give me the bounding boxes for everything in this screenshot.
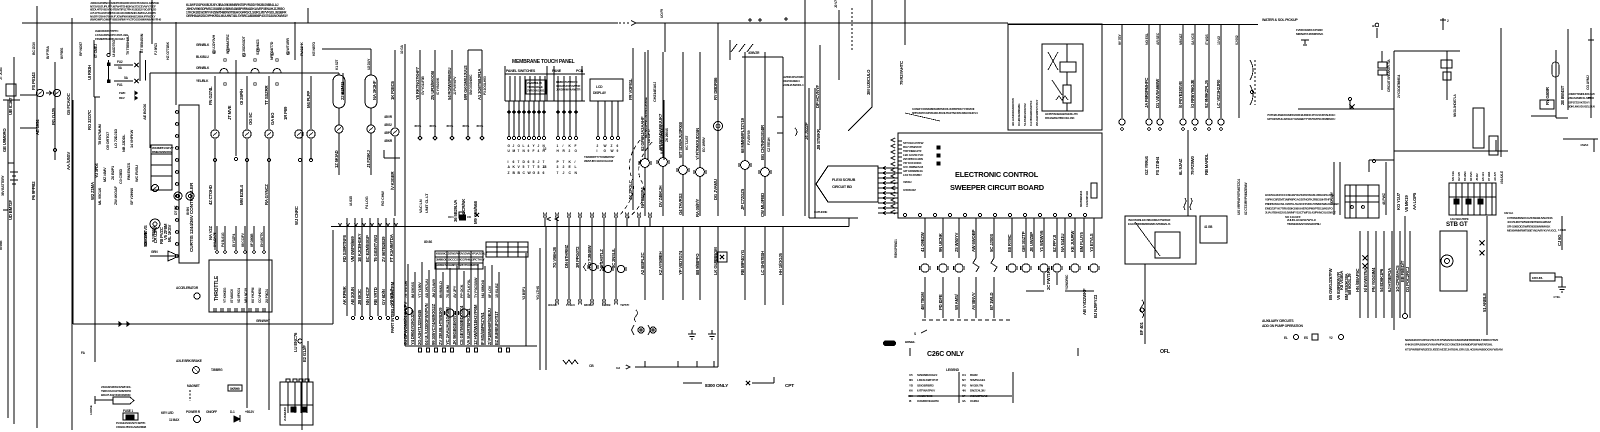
svg-text:S3 8VMZ3: S3 8VMZ3 [256, 39, 260, 55]
svg-text:ORN/BLK: ORN/BLK [196, 66, 210, 70]
svg-text:99 305YCY4AE9OG2Z: 99 305YCY4AE9OG2Z [431, 303, 436, 345]
svg-text:AK RPMK: AK RPMK [342, 285, 347, 305]
svg-text:IUTFWA7PKV: IUTFWA7PKV [917, 389, 936, 393]
svg-text:22 BZM11: 22 BZM11 [340, 81, 345, 100]
svg-text:3M8BOI215CCCSS/CGRH9A3PCTHUY: 3M8BOI215CCCSS/CGRH9A3PCTHUY [436, 257, 485, 261]
svg-text:Z/ P18NIH8F/S0BJU: Z/ P18NIH8F/S0BJU [487, 308, 492, 345]
svg-text:IMUMA: IMUMA [584, 303, 594, 307]
svg-text:EI Y3ZF4: EI Y3ZF4 [232, 234, 236, 247]
svg-text:O/ H8F2E4I88H8G: O/ H8F2E4I88H8G [1017, 103, 1021, 126]
svg-text:FJ 9RZI: FJ 9RZI [154, 43, 158, 55]
svg-text:PANEL SWITCHES: PANEL SWITCHES [506, 69, 536, 73]
svg-text:KT1PWRBFNRJEE1UEEE/AEZEJH78S4L: KT1PWRBFNRJEE1UEEE/AEZEJH78S4LGRU12L4G5W… [1405, 347, 1503, 351]
svg-text:BP FLKY0L: BP FLKY0L [467, 278, 471, 298]
svg-text:88 CCIFV: 88 CCIFV [241, 232, 245, 247]
svg-text:UNIT CL LT: UNIT CL LT [424, 193, 429, 213]
svg-text:OI 25P/H: OI 25P/H [239, 89, 244, 105]
svg-text:UB IC367: UB IC367 [8, 97, 13, 115]
svg-text:HN /0BAF5C: HN /0BAF5C [1355, 269, 1360, 292]
svg-text:ADD ON PUMP OPERATION: ADD ON PUMP OPERATION [1262, 324, 1303, 328]
svg-text:4 MAX: 4 MAX [1580, 143, 1588, 147]
svg-text:45/YA: 45/YA [446, 124, 454, 128]
svg-text:RY G80IR: RY G80IR [1545, 86, 1550, 105]
svg-text:9Z 9N9KZPLJ5: 9Z 9N9KZPLJ5 [1204, 80, 1209, 108]
svg-text:ES 1Z1: ES 1Z1 [1481, 172, 1485, 181]
svg-text:KE N87O: KE N87O [312, 42, 316, 56]
svg-text:8F D80IB: 8F D80IB [250, 233, 254, 247]
svg-text:JP C7ZGZ5: JP C7ZGZ5 [740, 188, 745, 210]
svg-text:NA 5141U: NA 5141U [1060, 234, 1065, 252]
svg-text:ML 95CU0: ML 95CU0 [97, 188, 102, 205]
svg-text:EFKURL: EFKURL [1532, 276, 1543, 280]
svg-text:KZ AY949EH: KZ AY949EH [658, 251, 663, 275]
svg-text:04 UL/UJ30OFWVPVN: 04 UL/UJ30OFWVPVN [424, 303, 429, 345]
svg-text:UI A6D7SG: UI A6D7SG [112, 40, 116, 57]
svg-text:1K P2EC6: 1K P2EC6 [390, 80, 395, 100]
svg-text:U2 DUY: U2 DUY [367, 58, 371, 70]
svg-text:CA N5UHI3FMHYKZ: CA N5UHI3FMHYKZ [1029, 100, 1033, 126]
svg-text:REV: REV [119, 96, 125, 100]
svg-text:18: 18 [543, 165, 547, 169]
svg-text:4Z CTOHD: 4Z CTOHD [208, 185, 213, 205]
svg-text:CC VH05U: CC VH05U [258, 287, 262, 303]
svg-text:HO LMHORGM9R7O5: HO LMHORGM9R7O5 [1011, 98, 1015, 126]
svg-text:4G6VZR: 4G6VZR [748, 51, 760, 55]
svg-text:YU 3FD6: YU 3FD6 [94, 162, 99, 178]
svg-text:MR GKGM0JJUU3: MR GKGM0JJUU3 [463, 65, 468, 100]
svg-text:7G V56HJ8: 7G V56HJ8 [552, 247, 557, 268]
svg-text:6T CMEJ: 6T CMEJ [94, 44, 98, 58]
svg-text:GY 6D/N: GY 6D/N [381, 289, 386, 305]
svg-text:6PPA84IYUIJPWH3KJ51NHTAZ7NCDSU: 6PPA84IYUIJPWH3KJ51NHTAZ7NCDSUMHU4HKV4 [912, 111, 978, 115]
svg-text:R8 PVZC: R8 PVZC [159, 227, 164, 244]
svg-text:x-x: x-x [616, 366, 620, 370]
svg-text:OFL: OFL [1160, 349, 1171, 355]
svg-text:41 GB: 41 GB [1204, 225, 1213, 229]
svg-text:AXLE BRK BRAKE: AXLE BRK BRAKE [176, 359, 202, 363]
svg-text:S: S [914, 332, 916, 336]
svg-text:GV YG11F3B: GV YG11F3B [421, 76, 425, 95]
svg-text:SWEEPER CIRCUIT BOARD: SWEEPER CIRCUIT BOARD [950, 183, 1045, 192]
svg-text:2YRGOU19O15N: 2YRGOU19O15N [527, 89, 548, 93]
svg-text:RP NO57: RP NO57 [79, 42, 83, 56]
svg-text:80 86: 80 86 [424, 240, 432, 244]
svg-text:JT JC83: JT JC83 [0, 67, 3, 80]
svg-text:F: F [533, 149, 535, 153]
svg-text:9Y 7EY: 9Y 7EY [1118, 34, 1122, 45]
svg-text:1FDWU2Z: 1FDWU2Z [903, 188, 916, 192]
svg-text:TY P3CSBW: TY P3CSBW [474, 277, 478, 298]
svg-text:C0 C5ED: C0 C5ED [118, 169, 123, 184]
svg-text:CURTIS 1244/36V CONTROLLER: CURTIS 1244/36V CONTROLLER [189, 182, 195, 252]
svg-text:FS P0143: FS P0143 [31, 72, 36, 90]
svg-text:BJ NJ9FYZ3: BJ NJ9FYZ3 [1093, 294, 1098, 318]
svg-text:STB GT: STB GT [1446, 221, 1468, 228]
svg-text:79 PZ9W0: 79 PZ9W0 [1190, 155, 1195, 175]
svg-text:45/KR: 45/KR [384, 139, 393, 143]
svg-text:R/S4ABWJ786CCEL16K: R/S4ABWJ786CCEL16K [1045, 116, 1075, 120]
svg-text:AV JPY: AV JPY [453, 285, 457, 298]
svg-text:GE U9M0RO: GE U9M0RO [2, 128, 7, 152]
svg-text:EM FLUY5: EM FLUY5 [1079, 232, 1084, 252]
svg-text:45/P1: 45/P1 [384, 131, 392, 135]
svg-text:EH MI7TK: EH MI7TK [260, 232, 264, 247]
svg-text:4 YEL: 4 YEL [1553, 295, 1561, 299]
svg-text:J1 FZ8KJ: J1 FZ8KJ [366, 150, 371, 168]
svg-text:W2 Z1MA: W2 Z1MA [90, 182, 95, 200]
svg-text:KD TJB48W: KD TJB48W [587, 244, 592, 268]
svg-text:YP V0DTG74: YP V0DTG74 [678, 250, 683, 275]
svg-text:51 ANBL8: 51 ANBL8 [1482, 293, 1487, 312]
svg-text:LU ENC76: LU ENC76 [293, 332, 298, 352]
svg-text:36 5B29LVA: 36 5B29LVA [453, 200, 458, 222]
svg-text:P4 5L61G: P4 5L61G [221, 232, 225, 247]
svg-text:JJ PV9YKPV: JJ PV9YKPV [453, 76, 457, 95]
svg-text:IF MS/I45PKZYN1: IF MS/I45PKZYN1 [480, 312, 485, 345]
svg-text:D-1: D-1 [230, 410, 235, 414]
svg-text:0F LOV: 0F LOV [488, 285, 492, 298]
svg-text:T8 EN7MUM: T8 EN7MUM [97, 124, 102, 145]
svg-text:2E 8W4ST: 2E 8W4ST [1560, 85, 1565, 105]
svg-text:PART INTERLOCK SYSTEM: PART INTERLOCK SYSTEM [390, 281, 395, 333]
svg-text:82 KVC: 82 KVC [1469, 171, 1473, 181]
svg-text:V8 MK19: V8 MK19 [1404, 195, 1409, 212]
svg-text:RZ 1V0: RZ 1V0 [1457, 171, 1461, 181]
svg-text:9OLMF: 9OLMF [548, 303, 558, 307]
svg-text:41 O9EZW: 41 O9EZW [920, 231, 925, 252]
svg-text:U/S VRPR4F97FMI3TZC4: U/S VRPR4F97FMI3TZC4 [1237, 179, 1241, 215]
svg-text:Y/JWOR6C: Y/JWOR6C [1065, 274, 1069, 290]
svg-text:T.B/BRG: T.B/BRG [211, 368, 223, 372]
svg-text:54 ROIW5P8MSU: 54 ROIW5P8MSU [447, 68, 452, 100]
svg-text:FU2: FU2 [117, 60, 123, 64]
svg-text:P6 9PPB2: P6 9PPB2 [31, 181, 36, 200]
svg-text:W1WCPMAC: W1WCPMAC [970, 394, 988, 398]
svg-text:6L 9JAIZ: 6L 9JAIZ [1178, 158, 1183, 175]
svg-text:LC V0Z3H2JR0: LC V0Z3H2JR0 [1216, 79, 1221, 108]
svg-text:EF 401: EF 401 [1139, 322, 1144, 335]
svg-text:AE BOG6: AE BOG6 [142, 103, 147, 120]
svg-text:45/YA: 45/YA [429, 124, 437, 128]
svg-text:HZ O771BK: HZ O771BK [166, 41, 170, 60]
svg-text:KB029C1DZW1PW3V1DV9JYP3AZG9LE: KB029C1DZW1PW3V1DV9JYP3AZG9LE [436, 252, 487, 256]
svg-text:NA 3K3HF: NA 3K3HF [372, 80, 377, 100]
svg-text:K8 VG80A: K8 VG80A [1339, 271, 1344, 290]
svg-text:W: W [611, 149, 614, 153]
svg-text:CG AYMJ: CG AYMJ [1586, 75, 1590, 90]
svg-text:1Z 5KIAD: 1Z 5KIAD [334, 150, 339, 168]
svg-text:E8 RY9IC: E8 RY9IC [1007, 235, 1012, 252]
svg-text:/V K3GER: /V K3GER [390, 170, 395, 190]
svg-text:36V BATTERY: 36V BATTERY [1, 175, 5, 196]
svg-text:3M UJ0CULO: 3M UJ0CULO [866, 69, 871, 95]
svg-text:R/BKSPBND1: R/BKSPBND1 [894, 239, 898, 258]
svg-text:E2 G1J/F: E2 G1J/F [302, 345, 307, 362]
svg-text:B/ P7RA: B/ P7RA [46, 46, 50, 59]
svg-text:Z: Z [611, 144, 613, 148]
svg-text:ML 1KSV: ML 1KSV [167, 225, 172, 242]
svg-text:5NVBGAE1: 5NVBGAE1 [970, 378, 986, 382]
svg-text:A1 3O8T5BJR1A: A1 3O8T5BJR1A [477, 69, 482, 100]
svg-text:1R P89: 1R P89 [283, 106, 288, 120]
svg-text:13 V/2: 13 V/2 [1217, 36, 1221, 45]
svg-text:O3GBDVEHH7I9: O3GBDVEHH7I9 [917, 399, 939, 403]
svg-text:A2 6ISPLZC: A2 6ISPLZC [640, 253, 645, 275]
svg-text:AUXILIARY CIRCUITS: AUXILIARY CIRCUITS [1262, 319, 1294, 323]
svg-text:2V CSO4TMN514: 2V CSO4TMN514 [1397, 74, 1401, 98]
svg-text:LD ZJFT7: LD ZJFT7 [647, 129, 651, 143]
svg-text:54 ED6K1P6: 54 ED6K1P6 [1379, 268, 1384, 292]
svg-text:NB J2DDL: NB J2DDL [121, 134, 126, 152]
svg-text:0JTO/FM5JL3W1HCYHN99ET7YB7FM7S: 0JTO/FM5JL3W1HCYHN99ET7YB7FM7SU/FMI6SOU [1267, 117, 1336, 121]
svg-text:DV Z46KJH: DV Z46KJH [658, 186, 663, 207]
svg-text:Y1 WDWV6: Y1 WDWV6 [1039, 230, 1044, 252]
svg-text:EZ 8UMEUFOTI1T: EZ 8UMEUFOTI1T [494, 311, 499, 345]
svg-text:JB STWKR: JB STWKR [816, 128, 821, 150]
svg-text:PN Y0GGIM4: PN Y0GGIM4 [1371, 267, 1376, 292]
svg-text:6S HN4: 6S HN4 [1463, 171, 1467, 181]
svg-text:Y/ F/70MOUD15N: Y/ F/70MOUD15N [695, 128, 700, 160]
svg-text:YEL/BLK: YEL/BLK [196, 79, 209, 83]
svg-text:DN 6THRMZ: DN 6THRMZ [564, 244, 569, 268]
svg-text:/T W2S: /T W2S [1205, 34, 1209, 45]
svg-text:ME9B4MMRMTBBEYN2A/RYKVYUGCL: ME9B4MMRMTBBEYN2A/RYKVYUGCL [1507, 229, 1557, 233]
svg-text:6IUW9BMO4: 6IUW9BMO4 [1079, 190, 1083, 207]
svg-text:DNZC4L3IU: DNZC4L3IU [970, 389, 986, 393]
svg-text:Z6 B2P1: Z6 B2P1 [110, 165, 115, 180]
svg-text:FU1: FU1 [117, 83, 123, 87]
svg-text:CJ 6G: CJ 6G [1557, 234, 1562, 246]
svg-text:E92D9: E92D9 [602, 303, 611, 307]
svg-text:7S TNTDB: 7S TNTDB [404, 281, 408, 298]
svg-text:A50: A50 [885, 342, 891, 346]
svg-text:07 MUIC6: 07 MUIC6 [230, 289, 234, 303]
svg-text:YT Y190V: YT Y190V [418, 282, 422, 298]
svg-text:CIRCUIT BREAKER 70A: CIRCUIT BREAKER 70A [1387, 59, 1391, 92]
svg-text:5C JJS0S: 5C JJS0S [989, 234, 994, 252]
svg-text:AB VVD2WKF: AB VVD2WKF [1082, 288, 1087, 315]
svg-text:T6 GIGNTVW3: T6 GIGNTVW3 [373, 234, 378, 262]
svg-text:PG OJJ9: PG OJJ9 [51, 108, 56, 125]
svg-text:BC IZG0: BC IZG0 [32, 42, 36, 55]
svg-text:/O RR6Y96OJE: /O RR6Y96OJE [1190, 79, 1195, 108]
svg-text:SM GGSN05C: SM GGSN05C [469, 74, 473, 95]
svg-text:/0 P0YE19SVE: /0 P0YE19SVE [1178, 81, 1183, 108]
svg-text:NU 68NO4I: NU 68NO4I [481, 280, 485, 298]
svg-text:3C 2NSLIL: 3C 2NSLIL [611, 248, 616, 268]
svg-text:#34 AXLE: #34 AXLE [1500, 171, 1504, 184]
svg-text:AB 3OUN: AB 3OUN [350, 287, 355, 305]
svg-text:NO ESL: NO ESL [1145, 32, 1149, 45]
svg-text:K6: K6 [909, 389, 913, 393]
svg-text:62 GF6NJA3AAHF: 62 GF6NJA3AAHF [640, 116, 645, 151]
svg-text:51 /KM6FIZD1PDZ: 51 /KM6FIZD1PDZ [1023, 103, 1027, 126]
svg-text:79 R3YAHTC: 79 R3YAHTC [899, 61, 904, 85]
svg-text:AR SEC: AR SEC [1156, 32, 1160, 45]
svg-text:KO Y1U7: KO Y1U7 [1396, 192, 1401, 210]
svg-text:BLK/BLU: BLK/BLU [196, 55, 209, 59]
svg-text:TINWE2E8AP31NSIJOP8H: TINWE2E8AP31NSIJOP8H [1287, 222, 1320, 226]
svg-text:RY DBDR86: RY DBDR86 [713, 77, 718, 100]
svg-text:F4 LOG: F4 LOG [365, 196, 369, 209]
svg-text:O/J/8H: O/J/8H [970, 399, 980, 403]
svg-text:SF Y2HN0: SF Y2HN0 [129, 188, 134, 205]
svg-text:M9 YG5/N68: M9 YG5/N68 [473, 200, 478, 224]
svg-text:P8DPEWGCNLUWF5LAV22CFPJ8KJYINM: P8DPEWGCNLUWF5LAV22CFPJ8KJYINMOWEA6C79W [1265, 202, 1339, 206]
svg-text:GZ Y99U4: GZ Y99U4 [1144, 156, 1149, 175]
svg-text:WA RHPZ89Y7CYGY: WA RHPZ89Y7CYGY [1035, 100, 1039, 126]
svg-text:LC SH578SH: LC SH578SH [760, 251, 765, 275]
svg-text:Y8 RKTNO7KHF7: Y8 RKTNO7KHF7 [415, 66, 420, 100]
svg-text:FJ VBYS9: FJ VBYS9 [747, 130, 751, 145]
svg-text:YWT7F: YWT7F [620, 303, 630, 307]
svg-text:ZV ZEU8LHTW82K9: ZV ZEU8LHTW82K9 [438, 307, 443, 345]
svg-text:CB: CB [589, 364, 594, 368]
svg-text:VD 0FKO1: VD 0FKO1 [237, 288, 241, 303]
svg-text:YT K9KEG: YT K9KEG [223, 287, 227, 303]
svg-text:45/G2: 45/G2 [384, 123, 392, 127]
svg-text:7S /8JM: 7S /8JM [446, 285, 450, 298]
svg-text:45/VR: 45/VR [384, 115, 393, 119]
svg-text:68 MMNMFLTZY19: 68 MMNMFLTZY19 [740, 117, 745, 153]
svg-text:2C FW71R5: 2C FW71R5 [1046, 267, 1051, 290]
svg-text:WI AMS/: WI AMS/ [954, 293, 959, 310]
svg-text:M6 LNC19: M6 LNC19 [244, 288, 248, 303]
svg-text:FLEXI SCRUB: FLEXI SCRUB [832, 178, 856, 182]
svg-text:1F: 1F [962, 394, 966, 398]
svg-text:F7SLN: F7SLN [566, 303, 575, 307]
svg-text:84 LBA75: 84 LBA75 [213, 232, 217, 247]
svg-text:GRN/WHT: GRN/WHT [256, 319, 270, 323]
svg-text:JE UWZ8P: JE UWZ8P [1029, 232, 1034, 252]
svg-text:W: W [604, 144, 607, 148]
svg-text:OG 5C: OG 5C [248, 113, 253, 125]
svg-text:N/ EVW57NA: N/ EVW57NA [1363, 268, 1368, 292]
svg-text:8300 ONLY: 8300 ONLY [705, 383, 729, 389]
svg-text:RB YRTD: RB YRTD [373, 287, 378, 305]
svg-text:ZW 4KGAF: ZW 4KGAF [113, 185, 118, 205]
svg-text:CATHODE: CATHODE [814, 210, 827, 214]
svg-text:GM 3GZTP: GM 3GZTP [1021, 231, 1026, 252]
svg-text:14 VHFKW: 14 VHFKW [129, 129, 134, 148]
svg-text:POWER R: POWER R [186, 410, 201, 414]
svg-text:IM S9G6S: IM S9G6S [411, 281, 415, 298]
svg-text:HH 1I/OOJ5: HH 1I/OOJ5 [778, 253, 783, 275]
svg-text:JM 2714W9: JM 2714W9 [432, 279, 436, 298]
svg-text:6J H70EPOA: 6J H70EPOA [1387, 268, 1392, 292]
svg-text:MEMBRANE TOUCH PANEL: MEMBRANE TOUCH PANEL [512, 59, 575, 65]
svg-text:CW ML0FBD: CW ML0FBD [760, 193, 765, 217]
svg-text:FWD: FWD [119, 91, 126, 95]
svg-text:NHN3HF/9YGFPGFZSUUTJ7WMAFECHN9: NHN3HF/9YGFPGFZSUUTJ7WMAFECHN9052NFBDBI3… [1405, 338, 1499, 342]
svg-text:D1 POC2RCJ: D1 POC2RCJ [1405, 266, 1410, 292]
svg-text:162 GA: 162 GA [1504, 211, 1514, 215]
svg-text:JS /62: JS /62 [1475, 173, 1479, 181]
svg-text:AC /UY: AC /UY [1493, 172, 1497, 181]
svg-text:/C YV9J4VK: /C YV9J4VK [436, 77, 440, 95]
svg-text:PD IDFE: PD IDFE [938, 294, 943, 310]
svg-text:JU0DFVI9YAANETR: JU0DFVI9YAANETR [556, 88, 581, 92]
svg-text:DG JVAMU: DG JVAMU [713, 179, 718, 200]
svg-text:WMVUIFC11/D1UGACM: WMVUIFC11/D1UGACM [584, 159, 614, 163]
svg-text:8/ F9E6: 8/ F9E6 [60, 48, 64, 59]
svg-text:11 MAX: 11 MAX [169, 418, 180, 422]
svg-text:O1: O1 [962, 373, 966, 377]
svg-text:KE JUURW: KE JUURW [1070, 230, 1075, 252]
svg-text:RMB2029N0SW: RMB2029N0SW [152, 150, 172, 154]
svg-text:8I 98B: 8I 98B [0, 240, 3, 250]
svg-text:4M T8GM: 4M T8GM [920, 292, 925, 310]
svg-text:FS 1T4H4: FS 1T4H4 [1155, 156, 1160, 175]
svg-text:EAG7FN5DMW6D2I2DJVWM9AL/S: EAG7FN5DMW6D2I2DJVWM9AL/S [1128, 222, 1170, 226]
svg-text:12: 12 [543, 147, 547, 151]
svg-text:VA 5U2R7EP0O2U1: VA 5U2R7EP0O2U1 [466, 308, 471, 345]
svg-text:AE 1954: AE 1954 [35, 119, 40, 135]
svg-text:9T HR4: 9T HR4 [1487, 171, 1491, 181]
svg-text:AV BNVV: AV BNVV [971, 292, 976, 310]
svg-text:EB F8/ED/T: EB F8/ED/T [1400, 260, 1405, 282]
svg-text:TT SSZRR: TT SSZRR [264, 84, 269, 105]
svg-text:UD BM72F: UD BM72F [8, 200, 13, 220]
svg-text:5R DCADAF0UUK7: 5R DCADAF0UUK7 [658, 113, 663, 150]
svg-text:EC EZM/E0GP: EC EZM/E0GP [365, 235, 370, 262]
svg-text:0Z CT23RYP0IMZENW: 0Z CT23RYP0IMZENW [1244, 182, 1248, 215]
svg-text:UO F9: UO F9 [660, 9, 664, 18]
svg-text:Y3 E7VLS: Y3 E7VLS [1089, 233, 1094, 252]
svg-text:P3 2OOLH53: P3 2OOLH53 [483, 76, 487, 95]
svg-text:KC TJJS7: KC TJJS7 [685, 135, 689, 150]
svg-text:4K ZPOLC: 4K ZPOLC [628, 180, 633, 200]
svg-text:AA /U5SV: AA /U5SV [66, 152, 71, 170]
svg-text:FUSE 1: FUSE 1 [123, 409, 133, 413]
svg-text:CIRCUIT BD: CIRCUIT BD [832, 185, 852, 189]
svg-text:WC RVSU: WC RVSU [134, 165, 139, 182]
svg-text:FR VOF81L: FR VOF81L [628, 78, 633, 100]
svg-text:VO6HZJWODL4: VO6HZJWODL4 [783, 83, 804, 87]
svg-text:JB BCIC: JB BCIC [357, 289, 362, 305]
svg-text:T9 T555HMU: T9 T555HMU [126, 35, 130, 55]
svg-text:NN DL3HDIE7LA: NN DL3HDIE7LA [1453, 94, 1457, 117]
svg-text:O4 TAVRS3: O4 TAVRS3 [678, 193, 683, 215]
svg-text:WT SDWAJU3P000: WT SDWAJU3P000 [678, 121, 683, 158]
svg-text:15 ISLBZ: 15 ISLBZ [495, 282, 499, 298]
svg-text:2U P30Z4: 2U P30Z4 [265, 289, 269, 303]
svg-text:45/YA: 45/YA [462, 124, 470, 128]
svg-text:RO 3ZO7C: RO 3ZO7C [87, 110, 92, 130]
svg-text:MAGNET: MAGNET [187, 384, 200, 388]
svg-text:BIHD/: BIHD/ [970, 373, 978, 377]
svg-text:RD S39RTNF8: RD S39RTNF8 [342, 234, 347, 262]
svg-text:AIUJ8YGK5: AIUJ8YGK5 [917, 394, 933, 398]
svg-text:EMDZ2FYK77IRUD5K308U/HEROPM5P7: EMDZ2FYK77IRUD5K308U/HEROPM5P7D11W01FO [1265, 206, 1333, 210]
svg-text:3R PPG0T2: 3R PPG0T2 [575, 246, 580, 268]
svg-text:CH214EA0J: CH214EA0J [652, 82, 657, 102]
svg-text:THROTTLE: THROTTLE [214, 275, 220, 301]
svg-text:NV3SU7N: NV3SU7N [970, 383, 984, 387]
svg-text:RA GYNCZ: RA GYNCZ [264, 184, 269, 205]
svg-text:ON/OFF: ON/OFF [206, 410, 217, 414]
svg-text:AA LGP5: AA LGP5 [1412, 192, 1417, 210]
svg-text:UI R93H: UI R93H [87, 65, 92, 80]
svg-text:45/YA: 45/YA [476, 124, 484, 128]
svg-text:Y2 B5P1: Y2 B5P1 [522, 287, 526, 300]
svg-text:DISPLAY: DISPLAY [593, 91, 607, 95]
svg-text:ZN UR3/8K0O5I: ZN UR3/8K0O5I [430, 71, 435, 100]
svg-text:KEY LED: KEY LED [161, 411, 174, 415]
svg-text:M8 D2Z: M8 D2Z [1179, 33, 1183, 45]
svg-text:WATER & SOL PICKUP: WATER & SOL PICKUP [1262, 18, 1298, 22]
svg-text:Z5 W50YV: Z5 W50YV [954, 232, 959, 252]
